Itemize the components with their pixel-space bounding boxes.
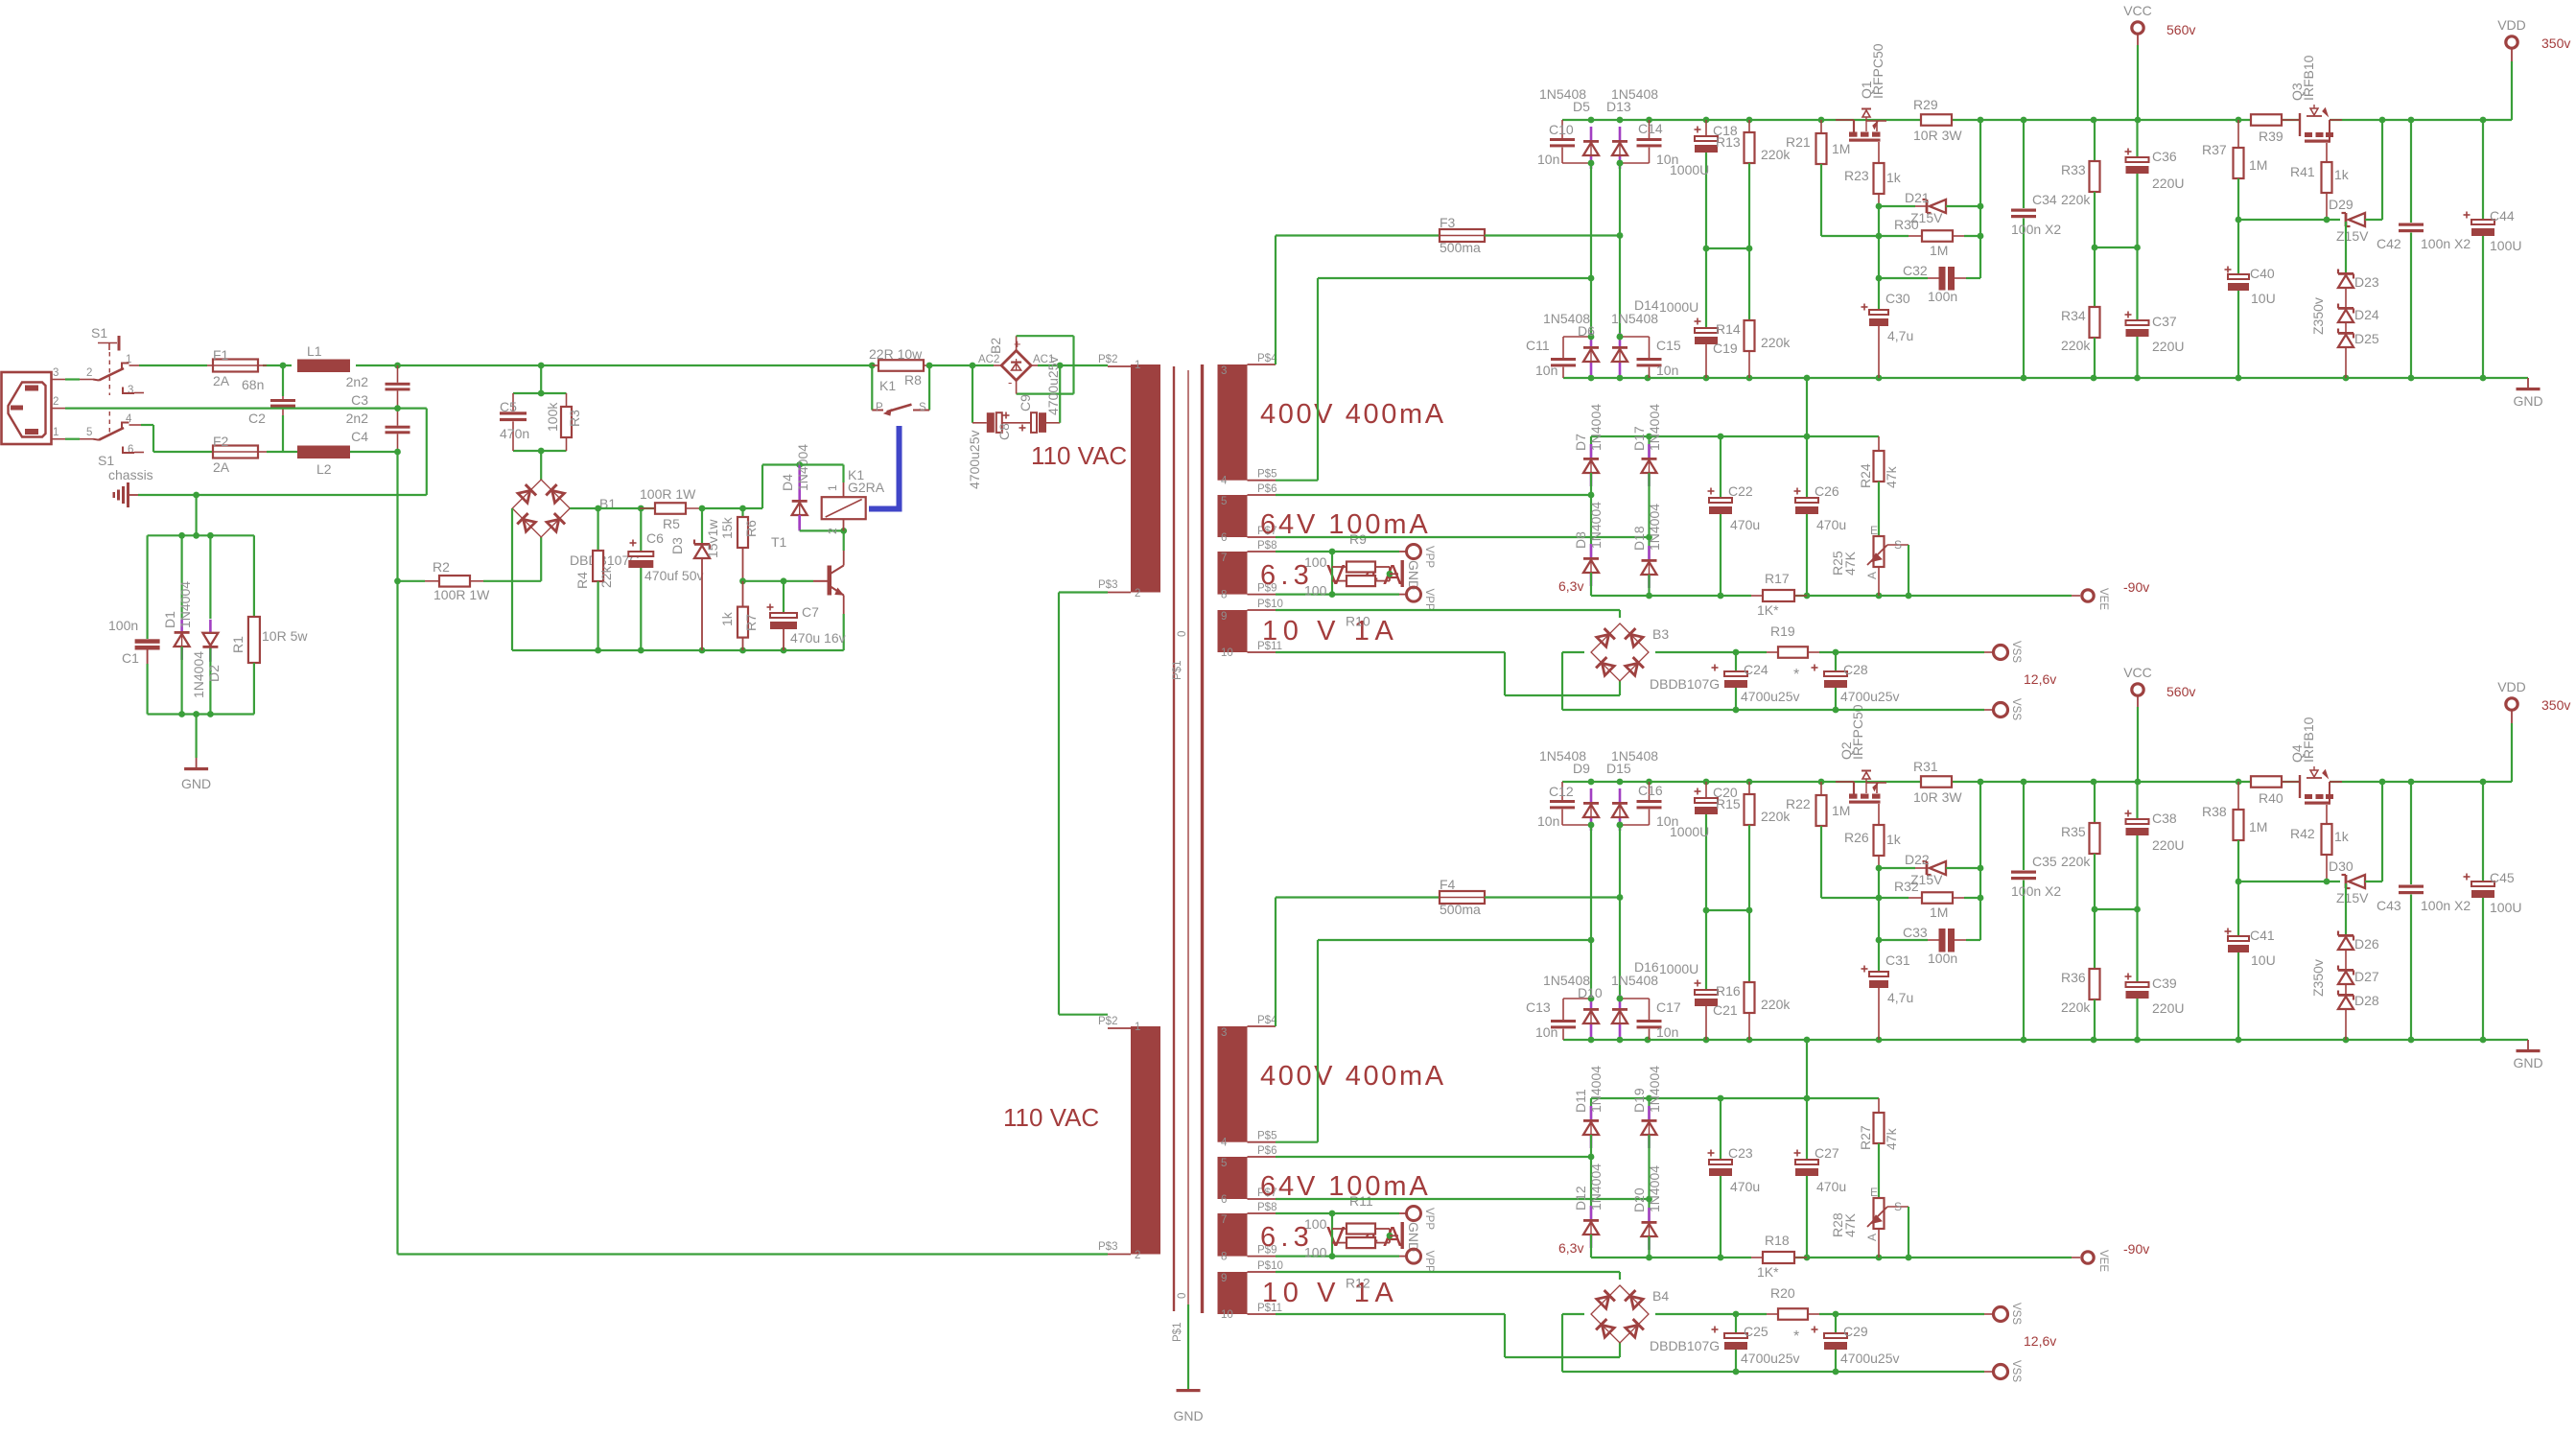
svg-text:220U: 220U [2152,837,2184,853]
svg-text:C28: C28 [1843,662,1868,677]
svg-text:100n X2: 100n X2 [2421,236,2471,251]
svg-text:10: 10 [1221,647,1233,659]
svg-text:9: 9 [1221,1273,1227,1284]
resistor R33 220k [2061,120,2100,307]
resistor R37 1M [2202,120,2267,220]
capacitor C15 10n [1617,334,1681,378]
svg-text:VDD: VDD [2497,17,2526,33]
resistor R23 1k [1844,142,1902,206]
label 64V 100mA [1260,509,1431,540]
svg-text:1N5408: 1N5408 [1539,86,1586,102]
svg-text:IRFB10: IRFB10 [2301,717,2316,763]
label 10 V 1A [1262,1278,1398,1308]
svg-text:1N4004: 1N4004 [795,444,810,491]
svg-text:R34: R34 [2061,308,2086,323]
svg-text:100n: 100n [1928,951,1957,966]
zener diode D22 Z15V [1876,852,1984,887]
svg-text:10R 5w: 10R 5w [262,628,308,644]
svg-text:47k: 47k [1884,465,1899,488]
svg-text:10R 3W: 10R 3W [1913,128,1962,143]
transformer pin P$10 [1221,1260,1283,1284]
svg-text:C32: C32 [1903,263,1928,278]
svg-text:R26: R26 [1844,830,1869,845]
wire P$6 line [1276,492,1594,499]
svg-text:1N4004: 1N4004 [177,581,193,628]
svg-text:400V 400mA: 400V 400mA [1260,399,1446,430]
resistor R39 10R 3W [2251,114,2283,144]
wire AC to upper diodes [1588,163,1595,337]
wire P$11 to bridge [1276,1314,1620,1357]
resistor R14 220k [1716,320,1791,378]
svg-text:3: 3 [1221,365,1227,377]
svg-text:D8: D8 [1573,531,1588,549]
svg-text:C12: C12 [1549,784,1574,799]
wire VCC rail [1562,117,2512,124]
wire P$6 line [1276,1154,1594,1161]
diode D16 1N5408 [1611,959,1659,1037]
svg-text:1000U: 1000U [1659,299,1698,315]
svg-text:D21: D21 [1905,190,1930,205]
diode D6 1N5408 [1543,311,1599,375]
inductor L2 [297,446,350,478]
capacitor C37 220U [2125,312,2185,379]
svg-text:D19: D19 [1631,1088,1647,1113]
svg-text:F4: F4 [1440,877,1456,892]
transformer pin P$10 [1221,599,1283,623]
transformer pin P$5 [1221,469,1276,487]
svg-text:R42: R42 [2290,826,2315,841]
capacitor C28 4700u25v [1812,652,1900,710]
svg-text:470u: 470u [1730,517,1760,532]
svg-text:K1: K1 [879,378,896,393]
svg-text:C14: C14 [1638,121,1663,136]
6.3V 4A secondary winding bar [1218,552,1248,595]
capacitor C11 10n [1526,337,1591,378]
400V 400mA secondary winding bar [1218,1026,1248,1142]
svg-text:VCC: VCC [2123,3,2152,18]
svg-text:R4: R4 [574,572,590,589]
transformer pin P$1 label [1172,1323,1183,1342]
svg-text:1N5408: 1N5408 [1539,748,1586,764]
resistor R20 [1767,1285,1819,1320]
svg-text:C7: C7 [802,604,819,620]
supply VDD 350v [2497,679,2570,782]
svg-text:1M: 1M [2249,819,2267,835]
svg-text:D12: D12 [1573,1186,1588,1211]
svg-text:S: S [1894,1200,1902,1213]
resistor R7 1k [719,581,759,650]
svg-text:VSS: VSS [2010,1303,2022,1325]
diode D7 1N4004 [1573,404,1604,495]
capacitor C26 470u [1794,436,1847,596]
capacitor C2 68n [242,365,295,452]
svg-text:2: 2 [1135,588,1140,599]
svg-text:1k: 1k [2334,829,2350,844]
svg-text:10n: 10n [1656,1024,1678,1040]
svg-text:220k: 220k [1761,335,1791,350]
svg-text:2A: 2A [213,373,230,388]
svg-text:1k: 1k [719,611,735,626]
svg-text:R37: R37 [2202,142,2227,157]
svg-text:R30: R30 [1894,217,1919,232]
resistor R1 10R 5w [230,617,308,715]
svg-text:2: 2 [53,396,59,408]
svg-text:P$2: P$2 [1098,354,1117,365]
label 400V 400mA [1260,1061,1446,1092]
svg-text:D7: D7 [1573,434,1588,451]
wire P$9 to VPP [1276,591,1406,598]
svg-text:GND: GND [1406,1222,1421,1252]
capacitor C33 100n [1879,925,1980,966]
svg-text:S: S [1894,538,1902,552]
svg-text:+: + [1014,337,1021,351]
resistor R18 1K* [1751,1233,1807,1280]
resistor R13 220k [1716,120,1791,320]
wire 64V positive rail [1591,1095,1879,1102]
wire heater balance [1331,1213,1333,1257]
svg-text:5: 5 [1221,1158,1227,1169]
supply VSS lower [1994,1360,2023,1382]
svg-text:D26: D26 [2354,936,2379,952]
zener diode D21 Z15V [1876,190,1984,225]
wire P$3 to bottom primary [1059,593,1108,1015]
supply VPP upper [1407,1207,1436,1231]
svg-text:D2: D2 [206,665,222,682]
bridge rectifier B3 DBDB107G [1591,623,1720,692]
svg-text:VDD: VDD [2497,679,2526,694]
10V 1A secondary winding bar [1218,1272,1248,1314]
transformer pin P$4 [1221,353,1277,377]
svg-text:R2: R2 [433,559,450,575]
svg-text:500ma: 500ma [1440,902,1481,917]
svg-text:R23: R23 [1844,168,1869,183]
svg-text:*: * [1793,667,1799,683]
wire gate line [2236,217,2340,223]
svg-text:220U: 220U [2152,1000,2184,1016]
capacitor C4 2n2 [346,409,410,452]
svg-text:470u: 470u [1730,1179,1760,1194]
svg-text:R16: R16 [1716,983,1741,999]
wire B1 minus rail [512,508,844,653]
svg-text:1K*: 1K* [1757,602,1779,618]
svg-text:6.3 V 4A: 6.3 V 4A [1260,1222,1407,1253]
svg-text:A: A [1865,1234,1879,1241]
svg-text:IRFPC50: IRFPC50 [1850,704,1865,760]
svg-text:1N4004: 1N4004 [1647,404,1662,451]
svg-text:D29: D29 [2329,197,2354,212]
svg-text:chassis: chassis [108,467,153,482]
zener diode D23 Z350v [2310,222,2379,335]
label 110 VAC bottom [1003,1103,1099,1132]
svg-text:R14: R14 [1716,321,1741,337]
diode D10 1N5408 [1543,973,1603,1037]
wire bridge plus line [1655,649,1993,656]
svg-text:R24: R24 [1858,463,1873,488]
svg-text:R11: R11 [1349,1193,1373,1209]
relay K1 G2RA coil [800,465,885,535]
wire VEE line [1591,593,2080,599]
svg-text:P$10: P$10 [1257,1260,1283,1272]
svg-text:4700u25v: 4700u25v [967,430,982,489]
svg-text:560v: 560v [2166,22,2195,37]
resistor R17 1K* [1751,571,1807,618]
svg-text:8: 8 [1221,1252,1227,1263]
capacitor C10 10n [1537,120,1591,167]
fuse F2 2A [213,434,398,475]
capacitor C38 220U [2125,782,2185,982]
resistor R40 10R 3W [2251,776,2283,806]
svg-text:4700u25v: 4700u25v [1741,1351,1800,1366]
svg-text:350v: 350v [2541,697,2570,713]
mechanical link wire blue [869,426,900,509]
ground GND right [2513,1040,2542,1070]
supply VSS lower [1994,698,2023,720]
svg-text:T1: T1 [771,534,787,550]
svg-text:15k: 15k [719,516,735,539]
capacitor C12 10n [1537,782,1591,829]
resistor R31 10R 3W [1913,759,1962,805]
svg-text:4: 4 [1221,1138,1228,1149]
svg-text:470uf 50v: 470uf 50v [644,568,704,583]
fuse F4 500ma [1276,877,1620,1026]
svg-text:C26: C26 [1815,483,1839,499]
svg-text:C15: C15 [1656,338,1681,353]
svg-text:R3: R3 [567,410,582,427]
svg-text:2A: 2A [213,459,230,475]
zener diode D30 Z15V [2329,782,2382,905]
capacitor C21 1000U [1659,961,1738,1040]
svg-text:6,3v: 6,3v [1558,578,1583,594]
svg-text:47k: 47k [1884,1127,1899,1150]
capacitor C45 100U [2464,782,2522,1040]
ground GND transformer screen [1173,1389,1203,1423]
svg-text:R1: R1 [230,636,246,653]
svg-text:10n: 10n [1535,363,1557,378]
transformer pin P$2 [1098,1016,1140,1033]
svg-text:220U: 220U [2152,176,2184,191]
svg-text:100: 100 [1304,554,1327,570]
label 10 V 1A [1262,616,1398,646]
svg-text:VEE: VEE [2097,588,2109,610]
svg-text:6.3 V 4A: 6.3 V 4A [1260,560,1407,591]
wire B2 DC short loop [1017,336,1074,393]
svg-text:100: 100 [1304,583,1327,599]
resistor R2 100R 1W [398,559,542,602]
svg-text:P$3: P$3 [1098,579,1117,591]
svg-text:R36: R36 [2061,970,2086,985]
svg-text:C33: C33 [1903,925,1928,940]
svg-text:C35: C35 [2032,854,2057,869]
svg-text:P$6: P$6 [1257,1145,1276,1157]
ground GND [1401,560,1422,590]
svg-text:6: 6 [128,444,133,456]
svg-text:100n X2: 100n X2 [2421,898,2471,913]
svg-text:1: 1 [826,484,839,491]
svg-text:C21: C21 [1713,1002,1738,1018]
svg-text:C4: C4 [351,429,368,444]
svg-text:C5: C5 [500,399,517,414]
resistor R6 15k [741,508,743,517]
svg-text:D17: D17 [1631,426,1647,451]
wire P$8 to VPP [1276,1211,1406,1217]
wire gate line [2236,879,2340,885]
svg-text:1N4004: 1N4004 [1647,1165,1662,1212]
svg-text:D30: D30 [2329,858,2354,874]
transformer primary winding bar (pins 1/2) [1131,1026,1160,1255]
resistor R9 [1304,531,1390,573]
transformer pin P$1 label [1172,661,1183,680]
svg-text:10n: 10n [1535,1024,1557,1040]
capacitor C27 470u [1794,1098,1847,1258]
svg-text:D18: D18 [1631,526,1647,551]
diode D18 1N4004 [1631,504,1662,596]
svg-text:C39: C39 [2152,976,2177,991]
svg-text:C8: C8 [996,423,1012,440]
svg-text:220k: 220k [2061,999,2091,1015]
svg-text:3: 3 [53,367,59,379]
resistor R19 [1767,623,1819,658]
wire base line [739,577,813,584]
transformer pin P$9 [1221,583,1276,601]
svg-text:GND: GND [1406,560,1421,590]
svg-text:Z15V: Z15V [2336,890,2369,905]
label 6.3 V 4A [1260,560,1407,591]
svg-text:R15: R15 [1716,796,1741,811]
chassis ground symbol [113,482,139,507]
svg-text:C34: C34 [2032,192,2057,207]
svg-text:C31: C31 [1885,952,1910,968]
svg-text:VSS: VSS [2010,641,2022,663]
transformer primary winding bar (pins 1/2) [1131,364,1160,593]
svg-text:4700u25v: 4700u25v [1741,689,1800,704]
svg-text:DBDB107G: DBDB107G [1650,1338,1720,1353]
svg-text:R33: R33 [2061,162,2086,177]
10V 1A secondary winding bar [1218,610,1248,652]
svg-text:100U: 100U [2490,900,2521,915]
svg-text:L2: L2 [316,461,332,477]
svg-text:R40: R40 [2259,790,2283,806]
svg-text:VPP: VPP [1423,546,1435,568]
svg-text:D22: D22 [1905,852,1930,867]
resistor R21 1M [1816,120,1851,236]
svg-text:4: 4 [1221,476,1228,487]
diode D19 1N4004 [1631,1066,1662,1199]
bridge rectifier B4 DBDB107G [1591,1285,1720,1353]
svg-text:R20: R20 [1770,1285,1795,1301]
svg-text:R41: R41 [2290,164,2315,179]
svg-text:5: 5 [1221,496,1227,507]
svg-text:R35: R35 [2061,824,2086,839]
svg-text:C13: C13 [1526,999,1551,1015]
svg-text:B3: B3 [1652,626,1669,642]
svg-text:-90v: -90v [2123,1241,2149,1257]
switch S1 lower pole [86,411,153,482]
svg-text:C27: C27 [1815,1145,1839,1161]
svg-text:C23: C23 [1728,1145,1753,1161]
svg-text:DBDB107G: DBDB107G [1650,676,1720,692]
wire to GND [1387,1229,1398,1243]
ground GND [1401,1222,1422,1252]
label 12,6v [2024,1333,2056,1349]
svg-text:22k: 22k [598,565,614,588]
label R22 [1786,796,1811,811]
transformer pin P$8 [1221,540,1276,564]
svg-text:C44: C44 [2490,208,2515,223]
svg-text:C25: C25 [1744,1324,1768,1339]
svg-text:1N4004: 1N4004 [1588,404,1604,451]
wire R2 to bridge B1 [540,537,542,581]
resistor R36 220k [2061,969,2100,1040]
svg-text:C38: C38 [2152,811,2177,826]
svg-text:47K: 47K [1842,1212,1858,1237]
svg-text:15v1w: 15v1w [705,519,720,558]
wire AC to upper diodes [1588,825,1595,999]
wire P$5 to rectifier [1276,940,1591,1142]
wire gate divider [1876,782,1980,943]
svg-text:VPP: VPP [1423,1208,1435,1230]
svg-text:350v: 350v [2541,35,2570,51]
svg-text:L1: L1 [307,343,322,359]
wire neutral to Y-cap midpoint [52,405,427,495]
svg-text:10: 10 [1221,1309,1233,1321]
svg-text:1N4004: 1N4004 [1588,1164,1604,1211]
svg-text:C3: C3 [351,392,368,408]
wire GND rail [1563,375,2528,382]
svg-text:470u: 470u [1816,1179,1846,1194]
svg-text:10 V 1A: 10 V 1A [1262,1278,1398,1308]
wire 64V positive rail [1591,434,1879,440]
diode D20 1N4004 [1631,1165,1662,1258]
capacitor C43 100n X2 [2377,782,2471,1040]
resistor R34 220k [2061,307,2100,378]
svg-text:P$8: P$8 [1257,1202,1276,1213]
svg-text:2n2: 2n2 [346,374,369,389]
wire T1 collector to relay [843,530,845,551]
wire divider link [2095,906,2141,913]
wire P$8 to VPP [1276,549,1406,555]
svg-text:R6: R6 [743,520,759,537]
64V 100mA secondary winding bar [1218,1157,1248,1199]
transformer pin P$11 [1221,1303,1282,1321]
svg-text:1M: 1M [1930,243,1948,258]
svg-text:1M: 1M [1832,141,1850,156]
svg-text:10n: 10n [1537,152,1559,167]
potentiometer R28 47k [1830,1186,1909,1258]
wire chassis to snubber block [148,492,254,639]
diode D5 1N5408 [1539,86,1599,169]
capacitor C40 10U [2225,220,2276,378]
svg-text:R12: R12 [1346,1276,1370,1291]
svg-text:IRFPC50: IRFPC50 [1870,43,1885,99]
svg-text:D27: D27 [2354,969,2379,984]
svg-text:C17: C17 [1656,999,1681,1015]
resistor R35 220k [2061,782,2100,969]
transformer pin P$9 [1221,1245,1276,1263]
wire F to mid diodes [1617,163,1624,337]
svg-text:R17: R17 [1765,571,1790,586]
diode D11 1N4004 [1573,1066,1604,1157]
diode D9 1N5408 [1539,748,1599,831]
resistor R38 1M [2202,782,2267,882]
potentiometer R25 47k [1830,524,1909,596]
capacitor C35 100n X2 [2011,782,2061,1040]
svg-text:R38: R38 [2202,804,2227,819]
diode D17 1N4004 [1631,404,1662,537]
svg-text:R29: R29 [1913,97,1938,112]
svg-text:R31: R31 [1913,759,1938,774]
svg-text:100R 1W: 100R 1W [640,486,696,502]
wire VCC rail [1562,779,2512,786]
